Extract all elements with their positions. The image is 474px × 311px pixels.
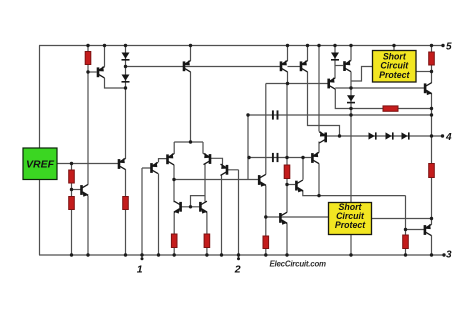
wire inner-right collector to mirror [204, 164, 206, 202]
node bottom rail junction x71.5 [70, 253, 73, 256]
wire x266 column Q11 collector [265, 84, 267, 175]
wire mirror diode bridge [191, 196, 206, 207]
transistor QA mirror load [173, 201, 180, 213]
node top rail junction x104.5 [103, 44, 106, 47]
wire box2 bottom pin [350, 235, 352, 256]
transistor Q8 output lower [425, 224, 432, 236]
node junction (190.5,206.8) [189, 205, 192, 208]
wire inner-left base link [159, 159, 167, 163]
node junction (431.5,71.5) [430, 70, 433, 73]
wire box1 top pin [393, 46, 395, 51]
resistor R10 [429, 52, 435, 65]
wire T3 emitter and collector jog to pin4 bus [308, 46, 340, 137]
block short circuit protect box 1 [373, 51, 417, 83]
svg-text:4: 4 [445, 132, 452, 143]
wire second stage long wire [174, 179, 258, 181]
node junction (265.8,217) [264, 215, 267, 218]
node junction (339.5,136) [338, 134, 341, 137]
wire Q1 base [88, 71, 97, 73]
diode D6 [331, 53, 339, 60]
transistor Q10 [312, 152, 319, 164]
wire box2 right pin [372, 218, 432, 220]
node junction (431.5,136) [430, 134, 433, 137]
wire long node column x287 down to Q9 [286, 84, 288, 256]
node junction (287,157.5) [285, 156, 288, 159]
wire Q4 collector through R4 to rail [125, 169, 127, 255]
transistor Q1 [98, 66, 105, 78]
node junction (442.5,136) [441, 134, 444, 137]
transistor Q4 [119, 158, 126, 170]
resistor R12 [403, 235, 409, 249]
svg-text:ElecCircuit.com: ElecCircuit.com [270, 259, 327, 268]
wire Q1 emitter to rail and collector down to diode bus [105, 46, 126, 89]
transistor Q11 second stage [259, 174, 266, 186]
node top rail junction x190.5 [189, 44, 192, 47]
wire bias mirror base bus [126, 66, 281, 68]
node top rail junction x394 [392, 44, 395, 47]
transistor Q7 output upper [425, 83, 432, 95]
wire Q12 emitter to Q8 base node [303, 191, 406, 196]
transistor T3 mirror [301, 60, 308, 72]
wire x405 column through R12 [405, 196, 407, 255]
wire cap C2 bus to Q10 base [249, 157, 311, 159]
node bottom rail junction x287 [285, 253, 288, 256]
wire x248 column [247, 115, 249, 180]
node junction (405.5,229.5) [404, 228, 407, 231]
node junction (71.5,189.5) [70, 188, 73, 191]
wire outer-right base and pin2 column [227, 170, 239, 259]
node bottom rail junction x238.5 [237, 253, 240, 256]
block VREF box [23, 148, 57, 180]
wire Q6 collector L and HR bus [335, 89, 431, 109]
node junction (287.5,83.5) [286, 82, 289, 85]
node bottom rail junction x125.5 [124, 253, 127, 256]
wire outer-left collector to rail [158, 174, 160, 256]
resistor R7 [284, 165, 290, 179]
wire R1 column from top rail [87, 46, 89, 73]
wire inner-left collector to node [173, 165, 175, 202]
wire Q5 base link [335, 65, 343, 67]
wire VREF output [57, 163, 118, 165]
resistor R6 [204, 234, 210, 248]
resistor R1 [85, 52, 91, 65]
node bottom rail junction x158.5 [157, 253, 160, 256]
resistor R5 [171, 234, 177, 248]
svg-text:3: 3 [446, 250, 452, 261]
node top rail junction x307.5 [306, 44, 309, 47]
svg-text:Protect: Protect [335, 220, 366, 230]
svg-text:VREF: VREF [26, 159, 55, 171]
svg-text:5: 5 [446, 41, 452, 52]
node junction (190.5,142) [189, 140, 192, 143]
wire top supply rail to pin 5 [39, 45, 443, 47]
transistor Q2b inner-right input [204, 153, 211, 165]
wire mirror base bus [180, 206, 202, 208]
node junction (351,115) [349, 113, 352, 116]
wire Q5 emitter / collector column to box2 [350, 46, 352, 203]
wire Q12 collector to C2 bus [302, 158, 304, 180]
node top rail junction x319 [317, 44, 320, 47]
wire Q3 collector column up / emitter down [87, 72, 89, 255]
diode D5 [402, 132, 409, 139]
transistor Q5 [345, 60, 352, 72]
node bottom rail junction x444 [442, 253, 445, 256]
node top rail junction x431.5 [430, 44, 433, 47]
node top rail junction x443 [441, 44, 444, 47]
svg-text:Protect: Protect [379, 70, 410, 80]
node top rail junction x88 [86, 44, 89, 47]
wire pin4 bus with diodes [326, 135, 443, 137]
node junction (287,184.5) [285, 183, 288, 186]
wire Q10 emitter from T5 / collector down [318, 142, 320, 196]
wire Q7 base bus y88 [335, 87, 425, 89]
transistor Q2c outer-right input [221, 164, 228, 176]
node bottom rail junction x174.2 [173, 253, 176, 256]
capacitor C2 [273, 153, 278, 162]
node bottom rail junction x405.5 [404, 253, 407, 256]
wire diode D1b column to Q6 emitter [334, 46, 336, 79]
wire diff pair top bar [174, 142, 203, 154]
block short circuit protect box 2 [329, 203, 372, 235]
capacitor C1 [273, 110, 278, 119]
wire bottom supply rail to pin 3 [39, 254, 444, 256]
wire pin1 input column [142, 168, 151, 259]
svg-text:1: 1 [137, 263, 143, 275]
node bottom rail junction x221.5 [220, 253, 223, 256]
wire T2 emitter and collector column [287, 46, 289, 84]
resistor R3 [69, 197, 75, 210]
wire box1 right pin [416, 71, 432, 73]
diode D1 [122, 53, 130, 60]
wire T3 base link [288, 66, 301, 68]
diode D3 [369, 132, 376, 139]
node top rail junction x351 [349, 44, 352, 47]
diode D4 [386, 132, 393, 139]
diode D2 [122, 75, 130, 82]
transistor Q2a outer-left input [152, 162, 159, 174]
node junction (125.5,66.5) [124, 65, 127, 68]
svg-text:2: 2 [234, 263, 241, 275]
transistor T2 mirror [281, 60, 288, 72]
transistor QB mirror diode [200, 201, 207, 213]
transistor Q6 [329, 77, 336, 89]
resistor R4 [123, 197, 129, 210]
node junction (174,179.5) [172, 178, 175, 181]
node junction (249,157.5) [247, 156, 250, 159]
node bottom rail junction x206.9 [205, 253, 208, 256]
transistor Q3 [82, 184, 89, 196]
svg-text:Circuit: Circuit [380, 61, 409, 71]
node junction (351,88) [349, 86, 352, 89]
wire cap C1 bus y115 [248, 114, 432, 116]
node junction (71.5,163.5) [70, 162, 73, 165]
node junction (88,72) [86, 70, 89, 73]
node bottom rail junction x351 [349, 253, 352, 256]
node junction (431.5,218.5) [430, 217, 433, 220]
transistor Q9 [280, 212, 287, 224]
node junction (125.5,88) [124, 86, 127, 89]
node bottom rail junction x88 [86, 253, 89, 256]
node junction (303,157.5) [301, 156, 304, 159]
node top rail junction x335 [333, 44, 336, 47]
wire QA emitter through R5 to rail [173, 212, 175, 255]
node top rail junction x125.5 [124, 44, 127, 47]
node bottom rail junction x142 [140, 253, 143, 256]
wire outer-right collector to rail [221, 175, 223, 255]
wire diode chain column D1 D2 down to Q4 emitter [125, 46, 127, 159]
node junction (319,195.6) [317, 194, 320, 197]
transistor T5 bias [319, 131, 326, 143]
wire R2 R3 divider column [71, 164, 73, 256]
wire Q12 base link [287, 184, 295, 186]
transistor Q12 [296, 180, 303, 192]
wire Q9 base bus to box2 [266, 216, 329, 218]
wire Q6 base bus [266, 83, 328, 85]
node junction (248,115) [246, 113, 249, 116]
node bottom rail junction x265.8 [264, 253, 267, 256]
resistor R8 [263, 236, 269, 249]
transistor Q2 inner-left input [168, 153, 175, 165]
resistor R11 [429, 164, 435, 178]
node bottom rail junction x431.5 [430, 253, 433, 256]
wire Q3 base [72, 189, 81, 191]
wire box1 left L link [351, 67, 373, 82]
wire QB emitter through R6 to rail [206, 212, 208, 255]
resistor R2 [69, 170, 75, 183]
node pin 2 stub [237, 257, 240, 260]
wire left supply column through VREF [39, 46, 41, 256]
node junction (431.5,108.5) [430, 107, 433, 110]
wire Q11 emitter column through R8 [265, 186, 267, 256]
wire Q8 base [406, 229, 425, 231]
node junction (351,108.5) [349, 107, 352, 110]
wire inner-right base link [210, 158, 223, 164]
wire T1 tail emitter and collector to diff pair [190, 46, 192, 143]
transistor T1 tail current source [184, 60, 191, 72]
wire output column x431 [431, 46, 433, 256]
node junction (431.5,115) [430, 113, 433, 116]
resistor R9 [383, 106, 398, 111]
node pin 1 stub [141, 257, 144, 260]
wire T5 top lead from rail [318, 46, 320, 132]
node top rail junction x287.5 [286, 44, 289, 47]
diode D7 [347, 95, 355, 102]
